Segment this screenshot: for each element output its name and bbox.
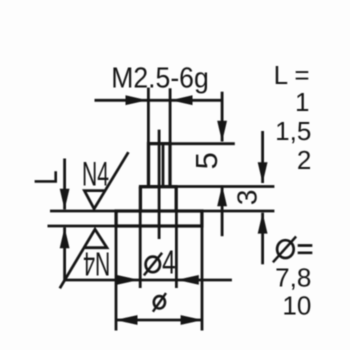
- svg-text:N4: N4: [82, 156, 109, 194]
- svg-text:7,8: 7,8: [275, 263, 311, 293]
- svg-text:L =: L =: [274, 60, 310, 90]
- svg-text:1,5: 1,5: [275, 116, 311, 146]
- svg-text:4: 4: [162, 243, 176, 280]
- svg-text:3: 3: [232, 190, 263, 206]
- svg-text:N4: N4: [83, 245, 110, 282]
- svg-text:5: 5: [189, 152, 224, 169]
- svg-text:M2.5-6g: M2.5-6g: [111, 62, 209, 94]
- svg-text:2: 2: [297, 145, 311, 175]
- svg-text:10: 10: [282, 291, 311, 321]
- svg-text:1: 1: [295, 87, 309, 117]
